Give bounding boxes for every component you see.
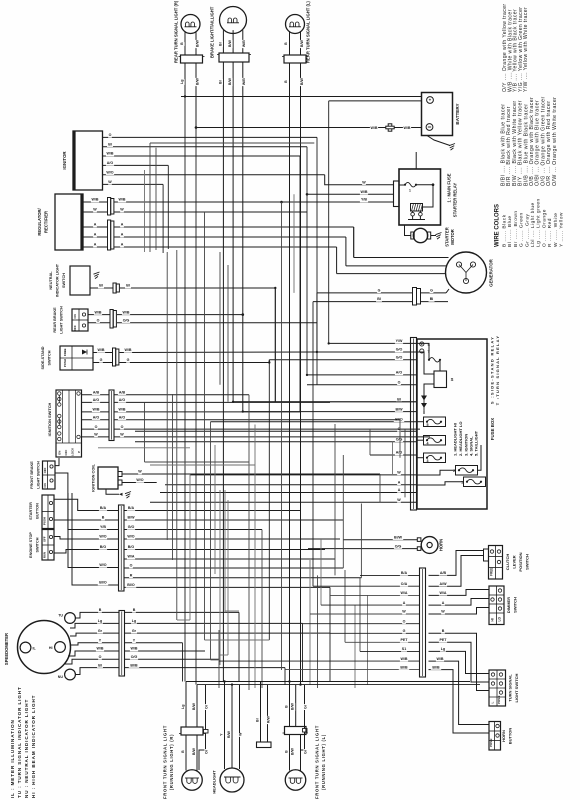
svg-text:B/W: B/W <box>228 78 232 86</box>
svg-text:INDICATOR LIGHT: INDICATOR LIGHT <box>56 263 60 297</box>
svg-text:W/B: W/B <box>119 408 126 412</box>
svg-text:LEVER: LEVER <box>512 555 517 568</box>
svg-text:BATTERY: BATTERY <box>455 103 460 124</box>
svg-text:SWITCH: SWITCH <box>525 554 530 570</box>
svg-text:A/O: A/O <box>396 371 403 375</box>
fuse box body <box>417 339 487 509</box>
svg-text:G ...... Green: G ...... Green <box>519 212 525 247</box>
svg-text:W/A: W/A <box>128 555 135 559</box>
svg-text:A: A <box>121 243 124 247</box>
svg-text:IGNITION COIL: IGNITION COIL <box>91 464 96 492</box>
svg-text:Bl/B: Bl/B <box>400 665 408 669</box>
svg-text:FUSE BOX: FUSE BOX <box>490 418 495 441</box>
svg-text:DIMMER: DIMMER <box>506 597 511 613</box>
svg-text:SWITCH: SWITCH <box>62 273 66 288</box>
svg-text:Or: Or <box>205 749 209 754</box>
svg-text:A/B: A/B <box>119 390 126 394</box>
fuse 1 <box>464 477 486 487</box>
svg-text:Gr: Gr <box>304 704 308 709</box>
svg-text:B: B <box>284 42 288 45</box>
svg-text:A: A <box>121 223 124 227</box>
svg-text:B/A: B/A <box>128 506 135 510</box>
wires horn <box>343 539 417 541</box>
wires starter button / engine stop to connector <box>54 499 119 510</box>
rear turn signal light (L) bulb <box>286 15 305 34</box>
svg-text:STARTER: STARTER <box>29 502 33 520</box>
svg-text:HI: HI <box>49 646 53 650</box>
svg-text:FREE: FREE <box>489 567 493 576</box>
svg-text:O/A: O/A <box>401 582 408 586</box>
svg-text:Bl: Bl <box>126 284 130 288</box>
engine stop switch <box>42 530 54 561</box>
svg-text:W: W <box>108 180 112 184</box>
starter relay coil <box>432 185 434 199</box>
svg-text:ON: ON <box>58 451 62 455</box>
svg-text:Bl: Bl <box>377 297 381 301</box>
svg-text:STARTER: STARTER <box>445 227 450 246</box>
svg-text:WIRE COLORS: WIRE COLORS <box>495 204 501 247</box>
svg-text:ENGINE STOP: ENGINE STOP <box>29 532 33 558</box>
wire rear turn L leads <box>289 63 291 682</box>
svg-text:PET: PET <box>440 638 448 642</box>
svg-text:W: W <box>441 610 445 614</box>
svg-text:NU: NU <box>58 675 64 679</box>
ignition switch connector bar <box>109 390 114 441</box>
starter relay box <box>399 169 441 225</box>
wire labels bulb R neck <box>180 42 185 46</box>
battery ground lead <box>427 136 450 146</box>
svg-text:Bl/O: Bl/O <box>99 581 107 585</box>
svg-text:Lg: Lg <box>132 619 136 623</box>
svg-text:SWITCH: SWITCH <box>48 350 52 365</box>
svg-text:A: A <box>442 601 445 605</box>
svg-text:Y/B: Y/B <box>100 525 106 529</box>
svg-text:OFF: OFF <box>73 325 77 331</box>
svg-text:L: L <box>491 702 495 704</box>
turn indicator light TU <box>65 613 76 624</box>
svg-text:REAR BRAKE: REAR BRAKE <box>53 307 57 333</box>
svg-text:FRONT TURN SIGNAL LIGHT: FRONT TURN SIGNAL LIGHT <box>163 725 168 799</box>
svg-text:1 : MAIN FUSE: 1 : MAIN FUSE <box>447 173 452 202</box>
svg-text:PET: PET <box>401 638 409 642</box>
svg-text:O/G: O/G <box>396 437 403 441</box>
wire neutral switch Bl <box>90 287 113 289</box>
svg-text:B/W: B/W <box>300 78 304 86</box>
svg-text:FREE: FREE <box>63 348 67 356</box>
svg-text:B/W: B/W <box>128 516 136 520</box>
svg-text:A/O: A/O <box>396 451 403 455</box>
svg-text:B ...... Black: B ...... Black <box>502 214 508 247</box>
svg-text:Gr: Gr <box>132 629 137 633</box>
svg-text:2. HEADLIGHT LO: 2. HEADLIGHT LO <box>458 422 463 456</box>
svg-text:O: O <box>398 381 401 385</box>
front turn signal light (L) <box>285 727 307 735</box>
svg-text:Br: Br <box>256 717 260 722</box>
svg-text:W/B: W/B <box>107 152 114 156</box>
wires generator pickup <box>317 292 413 294</box>
svg-text:Gr: Gr <box>304 749 308 754</box>
svg-text:Br: Br <box>218 79 222 84</box>
neutral indicator light NU <box>65 669 76 680</box>
svg-text:OFF: OFF <box>64 449 68 455</box>
speedometer <box>18 621 71 674</box>
svg-text:Bl/B: Bl/B <box>130 663 138 667</box>
svg-text:POSITION: POSITION <box>518 552 523 571</box>
svg-text:PUSH: PUSH <box>497 696 501 704</box>
svg-text:IGNITION SWITCH: IGNITION SWITCH <box>47 402 52 436</box>
ignitor <box>73 131 103 190</box>
starter motor <box>413 228 427 242</box>
starter relay left connector <box>394 181 400 207</box>
svg-text:IGNITOR: IGNITOR <box>62 151 67 170</box>
svg-text:G/O: G/O <box>128 525 135 529</box>
dimmer switch <box>489 586 504 625</box>
wire battery positive feed <box>181 96 422 98</box>
svg-text:Gr: Gr <box>98 629 103 633</box>
svg-text:LO: LO <box>498 617 502 622</box>
svg-text:R/W: R/W <box>267 716 271 724</box>
svg-text:Br: Br <box>218 41 222 46</box>
svg-text:HORN: HORN <box>501 730 506 742</box>
svg-text:LIGHT SWITCH: LIGHT SWITCH <box>514 673 519 702</box>
svg-text:S1: S1 <box>402 647 406 651</box>
svg-text:W: W <box>397 471 401 475</box>
svg-text:W/A: W/A <box>440 591 447 595</box>
clutch lever position switch <box>489 546 503 580</box>
svg-text:W/B: W/B <box>123 310 130 314</box>
ignition switch <box>56 390 82 457</box>
junction dots <box>195 126 197 128</box>
svg-text:B/W: B/W <box>300 40 304 48</box>
svg-text:O ...... Orange: O ...... Orange <box>541 209 547 247</box>
svg-text:W/O: W/O <box>99 563 106 567</box>
svg-text:B/W: B/W <box>291 748 295 756</box>
svg-text:BUTTON: BUTTON <box>508 728 513 745</box>
svg-text:STARTER RELAY: STARTER RELAY <box>453 183 458 218</box>
svg-text:O: O <box>97 318 100 322</box>
svg-text:W/B: W/B <box>119 198 126 202</box>
svg-text:B/W: B/W <box>291 703 295 711</box>
svg-text:NU : NEUTRAL INDICATOR LIGHT: NU : NEUTRAL INDICATOR LIGHT <box>24 699 29 798</box>
svg-text:T :TURN SIGNAL RELAY: T :TURN SIGNAL RELAY <box>495 335 500 405</box>
wires horn button <box>429 633 490 690</box>
svg-text:W/B: W/B <box>93 408 100 412</box>
wires speedometer to connector <box>76 612 120 618</box>
wires ignition switch <box>82 394 110 396</box>
svg-text:Bl: Bl <box>397 398 401 402</box>
svg-text:Bl/B: Bl/B <box>432 665 440 669</box>
svg-text:FRONT TURN SIGNAL LIGHT: FRONT TURN SIGNAL LIGHT <box>315 725 320 799</box>
wires regulator <box>83 201 108 203</box>
svg-text:HORN: HORN <box>439 539 444 551</box>
fuse 4 <box>424 436 446 446</box>
svg-text:3: 3 <box>427 459 429 463</box>
svg-text:Y/W: Y/W <box>396 339 403 343</box>
svg-text:5: 5 <box>427 423 429 427</box>
svg-text:Lg: Lg <box>180 80 184 84</box>
svg-text:O: O <box>121 425 124 429</box>
horn <box>421 537 438 554</box>
svg-text:G: G <box>100 358 103 362</box>
svg-text:Bl/O: Bl/O <box>127 583 135 587</box>
svg-text:W: W <box>402 610 406 614</box>
svg-text:W ...... White: W ...... White <box>553 213 559 247</box>
svg-text:(RUNNING LIGHT) (L): (RUNNING LIGHT) (L) <box>321 734 326 790</box>
svg-text:Lg: Lg <box>441 647 445 651</box>
fuse box terminals S T <box>420 342 424 346</box>
svg-text:G/O: G/O <box>396 348 403 352</box>
svg-text:B/W: B/W <box>192 703 196 711</box>
wires front brake switch <box>55 458 59 466</box>
svg-text:A: A <box>94 223 97 227</box>
svg-text:B: B <box>133 608 136 612</box>
regulator connector 2 <box>108 220 111 250</box>
svg-text:B/W: B/W <box>192 748 196 756</box>
wire mesh connections lower center <box>360 574 420 576</box>
svg-text:O/W ... Orange with White trac: O/W ... Orange with White tracer <box>552 97 558 186</box>
svg-text:FRONT BRAKE: FRONT BRAKE <box>30 461 34 489</box>
svg-text:O/G: O/G <box>131 655 138 659</box>
svg-text:S :SIDE-STAND RELAY: S :SIDE-STAND RELAY <box>490 336 495 404</box>
wires front turn R <box>185 682 187 728</box>
svg-text:O: O <box>99 655 102 659</box>
svg-text:W/B: W/B <box>97 647 104 651</box>
svg-text:A/O: A/O <box>119 415 126 419</box>
generator pickup connector <box>413 288 417 306</box>
wires into starter relay <box>325 175 394 185</box>
svg-text:Bl: Bl <box>430 297 434 301</box>
svg-text:B: B <box>102 516 105 520</box>
svg-text:SWITCH: SWITCH <box>513 597 518 613</box>
svg-text:A/O: A/O <box>107 161 114 165</box>
horn button <box>489 722 501 751</box>
fuse 2 <box>456 466 478 476</box>
wire brake/taillight leads <box>222 62 224 682</box>
svg-text:W/B: W/B <box>92 198 99 202</box>
main fuse inside relay <box>399 184 404 186</box>
svg-text:Or: Or <box>205 704 209 709</box>
svg-text:Lg: Lg <box>181 705 185 709</box>
svg-text:A: A <box>94 243 97 247</box>
wires ignitor outputs <box>103 136 318 138</box>
wire mesh horizontal runs <box>233 401 416 403</box>
svg-text:B: B <box>442 629 445 633</box>
svg-text:R/W: R/W <box>227 731 231 739</box>
svg-text:NEUTRAL: NEUTRAL <box>49 271 53 290</box>
svg-text:W: W <box>397 498 401 502</box>
svg-text:BRAKE LIGHT/TAILLIGHT: BRAKE LIGHT/TAILLIGHT <box>210 6 215 58</box>
svg-text:LOCK: LOCK <box>71 447 75 456</box>
wire mesh vertical trunks <box>144 402 146 462</box>
fuse 3 <box>424 453 446 463</box>
wires side-stand switch <box>93 352 113 354</box>
wires rear brake switch <box>88 314 110 316</box>
svg-text:W: W <box>239 732 243 736</box>
wires dimmer switch <box>429 590 490 596</box>
svg-text:ON: ON <box>43 483 47 487</box>
turn signal light switch <box>489 670 506 706</box>
wire rear turn R leads <box>184 63 186 97</box>
wires clutch switch <box>429 551 484 576</box>
svg-text:B/A: B/A <box>100 506 107 510</box>
wire battery to main-fuse line with fuse link <box>196 127 386 129</box>
svg-text:R ...... Red: R ...... Red <box>547 218 553 247</box>
wires headlight <box>224 682 226 770</box>
svg-text:W: W <box>120 433 124 437</box>
svg-text:A/B: A/B <box>93 390 100 394</box>
speedometer connector bar <box>119 611 125 677</box>
svg-text:A/B: A/B <box>440 571 447 575</box>
svg-text:B: B <box>181 750 185 753</box>
svg-text:Y/W .... Yellow with White tra: Y/W .... Yellow with White tracer <box>523 7 529 92</box>
svg-text:W/O: W/O <box>99 535 106 539</box>
svg-text:Lbl .... Light blue: Lbl .... Light blue <box>530 202 536 247</box>
svg-text:RUN: RUN <box>42 552 46 558</box>
svg-text:REAR TURN SIGNAL LIGHT (L): REAR TURN SIGNAL LIGHT (L) <box>306 1 311 63</box>
regulator connector 1 <box>108 198 111 216</box>
svg-text:W: W <box>94 433 98 437</box>
left handlebar connector feed labels <box>99 506 107 511</box>
wire labels brake bulb neck <box>218 41 223 47</box>
svg-text:5. TAILLIGHT: 5. TAILLIGHT <box>474 430 479 456</box>
wire relay to starter motor <box>405 225 411 236</box>
svg-text:W/B: W/B <box>125 348 132 352</box>
svg-text:B: B <box>285 750 289 753</box>
svg-text:W/B: W/B <box>131 647 138 651</box>
svg-text:W/B: W/B <box>98 348 105 352</box>
svg-text:B: B <box>180 42 184 45</box>
svg-text:W: W <box>93 208 97 212</box>
svg-text:ON: ON <box>73 314 77 318</box>
front brake light switch <box>43 461 56 489</box>
fuse box connector bar <box>411 338 417 511</box>
svg-text:4: 4 <box>427 442 429 446</box>
regulator/rectifier <box>55 194 83 250</box>
svg-text:LIGHT SWITCH: LIGHT SWITCH <box>37 461 41 489</box>
svg-text:W/O: W/O <box>136 478 143 482</box>
front turn signal light (R) <box>181 727 203 735</box>
svg-text:W/B: W/B <box>404 126 411 130</box>
svg-text:SPEEDOMETER: SPEEDOMETER <box>4 633 9 665</box>
svg-text:+: + <box>429 98 432 103</box>
svg-text:LIGHT SWITCH: LIGHT SWITCH <box>60 306 64 334</box>
svg-text:O: O <box>109 133 112 137</box>
svg-text:W/B: W/B <box>401 657 408 661</box>
svg-text:Bl: Bl <box>108 142 112 146</box>
svg-text:HEADLIGHT: HEADLIGHT <box>212 770 217 794</box>
svg-text:W/O: W/O <box>106 170 113 174</box>
neutral indicator light switch <box>70 266 90 295</box>
ignition coil <box>98 467 118 489</box>
svg-text:O: O <box>95 425 98 429</box>
svg-text:B/W: B/W <box>196 78 200 86</box>
rear brake light switch <box>72 309 88 331</box>
svg-text:B/A: B/A <box>401 571 408 575</box>
svg-text:(RUNNING LIGHT) (R): (RUNNING LIGHT) (R) <box>169 734 174 790</box>
svg-text:TU: TU <box>58 614 63 618</box>
svg-text:CLUTCH: CLUTCH <box>505 554 510 571</box>
svg-text:W/B: W/B <box>437 657 444 661</box>
svg-text:A: A <box>398 481 401 485</box>
wires speedometer connector right side <box>125 611 240 613</box>
svg-text:PUSH: PUSH <box>63 359 67 367</box>
svg-text:O/G: O/G <box>395 544 402 548</box>
svg-text:O/G: O/G <box>123 318 130 322</box>
svg-text:1: 1 <box>461 481 463 485</box>
svg-text:R: R <box>130 574 133 578</box>
svg-text:W/B: W/B <box>95 310 102 314</box>
svg-text:1. HEADLIGHT HI: 1. HEADLIGHT HI <box>453 423 458 456</box>
svg-text:REAR TURN SIGNAL LIGHT (R): REAR TURN SIGNAL LIGHT (R) <box>174 0 179 63</box>
wires left handlebar connector right side <box>124 510 300 512</box>
svg-text:W: W <box>138 470 142 474</box>
svg-text:Bl ...... Blue: Bl ...... Blue <box>507 215 513 247</box>
headlight <box>220 768 244 792</box>
svg-text:HI: HI <box>491 618 495 621</box>
svg-text:A: A <box>403 601 406 605</box>
svg-text:Y/B: Y/B <box>361 198 367 202</box>
svg-text:B/W: B/W <box>396 407 404 411</box>
svg-text:A: A <box>94 233 97 237</box>
wires generator 3-phase <box>354 257 449 259</box>
brake light/taillight bulb <box>220 7 247 34</box>
svg-text:Bl: Bl <box>99 284 103 288</box>
svg-text:A: A <box>121 233 124 237</box>
svg-text:W/A: W/A <box>401 591 408 595</box>
svg-text:Bl: Bl <box>98 663 102 667</box>
svg-text:B: B <box>284 80 288 83</box>
left handlebar connector bar <box>119 505 125 591</box>
svg-text:A/W: A/W <box>440 582 448 586</box>
svg-text:G: G <box>430 289 433 293</box>
svg-text:A/O: A/O <box>93 415 100 419</box>
svg-text:W: W <box>120 208 124 212</box>
battery <box>422 93 453 136</box>
svg-text:P: P <box>77 451 81 453</box>
svg-text:B/W: B/W <box>228 40 232 48</box>
wires into fuse box left <box>329 342 416 344</box>
center bar (frame harness connector) <box>420 568 426 677</box>
svg-text:B: B <box>285 705 289 708</box>
svg-text:A/O: A/O <box>119 398 126 402</box>
starter button <box>42 495 54 529</box>
svg-text:OFF: OFF <box>42 536 46 542</box>
svg-text:S: S <box>451 377 454 382</box>
svg-text:A/O: A/O <box>93 398 100 402</box>
rear turn signal light (R) bulb <box>181 15 200 34</box>
wire relay to battery vertical <box>415 152 417 169</box>
svg-text:O: O <box>130 564 133 568</box>
side-stand switch <box>60 346 93 370</box>
svg-text:G/O: G/O <box>396 356 403 360</box>
side-stand relay inside fuse box <box>434 371 447 388</box>
wires ignition coil <box>122 473 380 475</box>
svg-text:SIDE-STAND: SIDE-STAND <box>41 346 45 369</box>
wires turn signal switch <box>429 651 490 673</box>
svg-text:W/O: W/O <box>127 535 134 539</box>
ignition coil spark plug lead and ground <box>106 489 119 494</box>
svg-text:TU : TURN SIGNAL INDICATOR LIG: TU : TURN SIGNAL INDICATOR LIGHT <box>17 686 22 798</box>
svg-text:G: G <box>127 358 130 362</box>
wires front turn L <box>289 682 291 727</box>
svg-text:G: G <box>403 629 406 633</box>
svg-text:OFF: OFF <box>43 467 47 473</box>
svg-text:B/O: B/O <box>100 545 107 549</box>
svg-text:REGULATOR/: REGULATOR/ <box>37 208 42 236</box>
svg-text:BUTTON: BUTTON <box>36 503 40 519</box>
svg-text:Y ...... Yellow: Y ...... Yellow <box>559 212 565 247</box>
svg-text:Lg: Lg <box>98 619 102 623</box>
